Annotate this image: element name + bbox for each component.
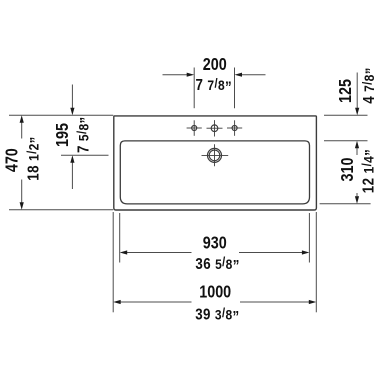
drain / overflow hole [202, 144, 229, 166]
right inner-top reference line [324, 140, 368, 142]
dimension 195 arrows and leaders [70, 85, 74, 190]
dimension 310 line and arrows [355, 141, 359, 204]
svg-text:930: 930 [203, 234, 227, 253]
dimension 930 line and arrows [120, 250, 310, 254]
dimension 200 extension lines [194, 68, 234, 109]
right top reference line [324, 114, 368, 116]
dimension 1000 line and arrows [113, 300, 316, 304]
svg-text:470: 470 [3, 148, 22, 172]
svg-text:195: 195 [54, 123, 73, 147]
dimension 470 line and arrows [20, 115, 24, 210]
bottom extension lines [113, 212, 316, 312]
svg-text:125: 125 [337, 79, 356, 103]
top reference line (left) [9, 114, 113, 116]
dimension 125 arrow and leader [355, 73, 359, 116]
svg-text:1000: 1000 [199, 283, 231, 302]
dimension 200 arrows and leaders [163, 73, 266, 77]
svg-text:200: 200 [203, 56, 227, 75]
right inner-bottom reference line [320, 203, 371, 205]
dimension 195 reference line at hole centre [61, 154, 109, 156]
right tap hole [227, 120, 242, 136]
bottom reference line (left) [9, 209, 113, 211]
left tap hole [187, 120, 202, 136]
washbasin inner bowl outline [120, 141, 309, 204]
center tap hole [207, 120, 223, 136]
washbasin outer rim outline [114, 116, 317, 210]
svg-text:310: 310 [339, 157, 358, 181]
svg-text:4 7/8”: 4 7/8” [360, 67, 380, 104]
